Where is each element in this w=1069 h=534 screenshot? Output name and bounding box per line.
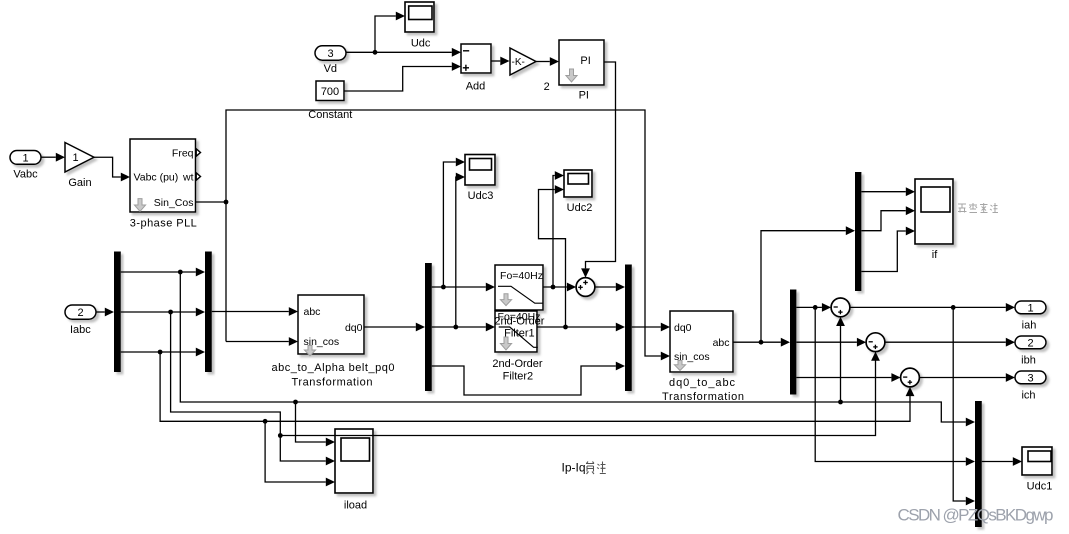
wire Vd junction up to scope Udc (375, 12, 405, 53)
svg-text:Filter1: Filter1 (504, 328, 535, 340)
svg-text:dq0: dq0 (674, 322, 692, 334)
wire circle2 to output ibh (885, 338, 1015, 347)
wire bar5 to sum circle2 (796, 338, 866, 347)
wire phase b feedback net (171, 312, 335, 465)
svg-text:Gain: Gain (68, 177, 91, 189)
filter block 2nd-Order Filter1 (495, 265, 543, 310)
wire bar6 to if input 1 (861, 187, 915, 196)
mux bar2 (205, 252, 212, 373)
wire Gain to 3-phase PLL (94, 157, 130, 181)
wire phase a feedback net (180, 272, 975, 426)
svg-text:if: if (932, 249, 938, 261)
svg-text:2: 2 (77, 307, 83, 319)
svg-text:Udc: Udc (411, 37, 431, 49)
svg-text:3: 3 (1027, 372, 1033, 384)
svg-text:Sin_Cos: Sin_Cos (154, 197, 194, 209)
svg-text:Add: Add (466, 81, 486, 93)
wire bar3 to Filter1 (432, 283, 495, 292)
wire bar3 to Filter2 (432, 323, 495, 332)
svg-text:Fo=40Hz: Fo=40Hz (500, 270, 543, 282)
wire dq0 to demux bar3 (364, 323, 425, 332)
wire bar6 to if input 3 (861, 227, 915, 272)
wire bar1 to bar2 phase c (121, 348, 205, 357)
wire Iabc to demux bar1 (96, 308, 114, 317)
svg-text:2: 2 (1027, 337, 1033, 349)
wire bar7 to scope Udc1 (982, 457, 1022, 466)
wire phase c feedback net (160, 352, 914, 424)
wire bar1 to bar2 phase a (121, 268, 205, 277)
svg-text:Iabc: Iabc (70, 324, 91, 336)
wire abc output to mux bar5 (733, 338, 790, 347)
svg-text:1: 1 (73, 152, 79, 164)
wire abc branch up to bar6 (761, 226, 855, 342)
output port 1 iah (1015, 301, 1046, 332)
wire Udc2 input 2 (539, 185, 566, 327)
svg-text:Udc1: Udc1 (1027, 480, 1053, 492)
mux bar5 (790, 290, 796, 395)
svg-text:Udc2: Udc2 (567, 202, 593, 214)
net Sin_Cos from PLL (196, 110, 671, 360)
sum circle3 minus-plus (901, 368, 920, 387)
svg-text:ibh: ibh (1021, 354, 1036, 366)
wire Udc2 input 1 (553, 171, 564, 287)
wire Udc3 input 2 (456, 173, 465, 327)
wire bar5 to sum circle1 (796, 303, 831, 312)
svg-text:PI: PI (580, 55, 590, 67)
demux bar6 (855, 172, 861, 291)
watermark CSDN (898, 506, 1054, 525)
wire Filter1 output to sum circle (543, 283, 576, 292)
input port 2 Iabc (65, 305, 96, 336)
wire phase a branch to iload input 1 (296, 402, 336, 446)
svg-text:dq0_to_abc: dq0_to_abc (669, 377, 736, 389)
wire bar2 to abc input (212, 307, 298, 316)
input port 1 Vabc (10, 151, 41, 181)
wire bar6 to if input 2 (861, 206, 915, 230)
svg-text:Transformation: Transformation (292, 376, 373, 388)
sum block Add (461, 44, 491, 93)
wire iah branch down to bar7 input 3 (953, 307, 975, 505)
wire bar5 to sum circle3 (796, 373, 900, 382)
svg-text:3: 3 (327, 48, 333, 60)
wire bar5 out1 branch down to bar7 input 2 (815, 307, 975, 466)
wire bar4 to dq0_to_abc (632, 323, 670, 332)
demux bar3 (425, 263, 432, 391)
wire -K- to PI (536, 57, 559, 66)
wire phase a branch up to circle1 bottom (836, 317, 845, 402)
svg-text:Vd: Vd (324, 63, 337, 75)
wire phase b branch to circle2 bottom (280, 352, 880, 436)
wire circle3 to output ich (919, 373, 1015, 382)
svg-text:3-phase PLL: 3-phase PLL (130, 218, 197, 230)
output port 3 ich (1015, 371, 1046, 401)
sum circle1 minus-plus (831, 298, 850, 317)
svg-text:2nd-Order: 2nd-Order (494, 316, 544, 328)
scope Udc2 (564, 170, 592, 214)
mux bar4 (625, 265, 632, 392)
wire bar1 to bar2 phase b (121, 308, 205, 317)
mux bar7 (975, 401, 982, 527)
svg-text:2: 2 (544, 81, 550, 93)
wire sum circle to mux bar4 (595, 283, 625, 292)
wire Vabc to Gain (41, 153, 65, 162)
svg-text:abc_to_Alpha belt_pq0: abc_to_Alpha belt_pq0 (272, 362, 395, 374)
svg-text:ich: ich (1021, 389, 1035, 401)
svg-text:abc: abc (304, 306, 321, 318)
gain Gain (65, 143, 94, 190)
block dq0_to_abc Transformation (662, 311, 744, 403)
input port 3 Vd (315, 46, 346, 75)
wire phase c branch to iload input 3 (265, 421, 335, 486)
sum circle2 minus-plus (866, 333, 885, 352)
svg-text:iload: iload (344, 500, 367, 512)
gain -K- (block name 2) (510, 48, 550, 93)
svg-text:2nd-Order: 2nd-Order (492, 358, 542, 370)
wire Constant to Add plus input (344, 62, 461, 91)
annotation Ip-Iq algorithm (562, 461, 606, 475)
svg-text:Udc3: Udc3 (468, 190, 494, 202)
sum circle harmonic add (576, 278, 595, 297)
scope iload (335, 429, 373, 512)
block abc_to_Alpha belt_pq0 Transformation (272, 295, 395, 388)
label 2nd-Order Filter1 (494, 316, 544, 340)
svg-text:abc: abc (713, 337, 730, 349)
filter block 2nd-Order Filter2 (492, 311, 542, 382)
svg-text:Vabc: Vabc (13, 169, 38, 181)
wire circle1 to output iah (850, 303, 1015, 312)
output chevron Freq (196, 149, 200, 156)
wire Vd to Add minus input (346, 48, 461, 57)
svg-text:iah: iah (1022, 320, 1037, 332)
wire Filter2 output to mux bar4 (537, 323, 625, 332)
output port 2 ibh (1015, 336, 1046, 366)
svg-text:Transformation: Transformation (662, 391, 744, 403)
svg-text:wt: wt (182, 171, 194, 183)
wire bar3 bypass to bar4 (432, 362, 625, 395)
annotation 基波电流 (CJK, drawn) (958, 203, 998, 213)
svg-text:Ip-Iq: Ip-Iq (562, 461, 586, 475)
block 3-phase PLL (130, 139, 197, 230)
svg-text:1: 1 (22, 152, 28, 164)
wire Add to gain -K- (491, 57, 510, 66)
scope Udc (405, 2, 434, 49)
wire Udc3 input 1 (443, 158, 465, 287)
svg-text:Freq: Freq (172, 147, 194, 159)
svg-text:CSDN @PZQsBKDgwp: CSDN @PZQsBKDgwp (898, 506, 1054, 525)
svg-text:1: 1 (1027, 302, 1033, 314)
scope Udc3 (465, 155, 495, 203)
svg-text:-K-: -K- (512, 57, 525, 68)
block PI (559, 40, 604, 102)
svg-text:700: 700 (321, 86, 339, 98)
svg-text:Filter2: Filter2 (503, 370, 534, 382)
svg-text:dq0: dq0 (345, 322, 363, 334)
scope Udc1 (1022, 447, 1052, 492)
constant 700 (308, 81, 352, 121)
svg-text:Vabc (pu): Vabc (pu) (134, 171, 179, 183)
scope if (915, 179, 953, 261)
output chevron wt (196, 173, 200, 180)
demux bar1 (114, 252, 121, 373)
wire PI output down to sum circle top (581, 62, 615, 278)
svg-text:PI: PI (579, 90, 589, 102)
